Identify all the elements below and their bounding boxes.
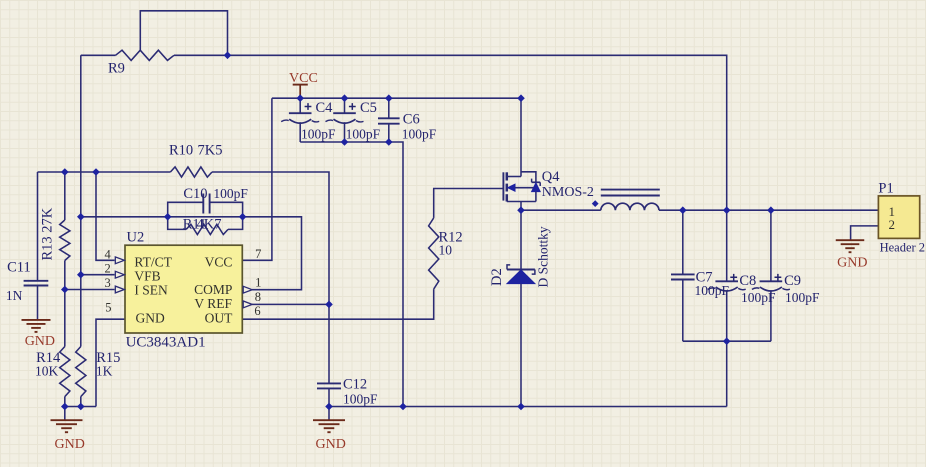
svg-text:C9: C9 (784, 273, 801, 289)
svg-text:U2: U2 (127, 229, 145, 245)
svg-text:I SEN: I SEN (134, 283, 168, 298)
svg-text:7K5: 7K5 (198, 143, 223, 159)
svg-text:C12: C12 (343, 377, 367, 393)
svg-text:8: 8 (255, 290, 261, 304)
svg-text:2: 2 (105, 262, 111, 276)
svg-text:Header 2: Header 2 (880, 241, 925, 255)
svg-text:Q4: Q4 (542, 169, 560, 185)
svg-text:6: 6 (254, 304, 260, 318)
svg-text:COMP: COMP (194, 282, 232, 297)
svg-text:100pF: 100pF (785, 290, 820, 305)
svg-text:C5: C5 (360, 100, 377, 116)
svg-text:10K: 10K (35, 364, 59, 379)
svg-text:100pF: 100pF (695, 283, 730, 298)
svg-text:VCC: VCC (205, 254, 233, 269)
svg-text:4: 4 (105, 247, 112, 261)
svg-text:GND: GND (837, 255, 867, 270)
svg-text:C8: C8 (739, 273, 756, 289)
svg-text:3: 3 (105, 276, 111, 290)
svg-text:1: 1 (255, 276, 261, 290)
svg-text:100pF: 100pF (301, 127, 336, 142)
svg-text:R10: R10 (169, 143, 193, 159)
svg-text:RT/CT: RT/CT (134, 254, 172, 269)
svg-text:GND: GND (25, 334, 55, 349)
svg-text:OUT: OUT (205, 311, 233, 326)
svg-text:C6: C6 (403, 112, 420, 128)
svg-text:NMOS-2: NMOS-2 (542, 185, 594, 200)
svg-text:VCC: VCC (289, 71, 318, 86)
svg-text:100pF: 100pF (343, 391, 378, 406)
svg-text:5: 5 (105, 300, 111, 314)
svg-text:GND: GND (55, 437, 85, 452)
svg-text:VFB: VFB (134, 269, 160, 284)
svg-text:GND: GND (316, 437, 346, 452)
svg-text:10: 10 (439, 243, 453, 258)
svg-text:R13 27K: R13 27K (40, 207, 56, 260)
svg-text:100pF: 100pF (346, 127, 381, 142)
svg-text:C4: C4 (316, 100, 334, 116)
svg-text:C10: C10 (183, 186, 207, 202)
svg-text:R9: R9 (108, 61, 125, 77)
svg-text:7: 7 (255, 247, 261, 261)
svg-text:1N: 1N (6, 288, 23, 303)
svg-text:P1: P1 (878, 180, 893, 196)
svg-text:1K: 1K (96, 364, 113, 379)
svg-text:100pF: 100pF (741, 290, 776, 305)
svg-text:UC3843AD1: UC3843AD1 (126, 334, 206, 350)
svg-text:100pF: 100pF (213, 186, 248, 201)
svg-text:GND: GND (136, 311, 165, 326)
svg-text:D Schottky: D Schottky (535, 226, 550, 287)
svg-text:C11: C11 (7, 260, 31, 276)
svg-text:2: 2 (889, 217, 896, 232)
svg-text:D2: D2 (489, 268, 505, 286)
svg-text:V REF: V REF (194, 296, 232, 311)
svg-text:4K7: 4K7 (197, 217, 222, 233)
svg-text:100pF: 100pF (402, 127, 437, 142)
